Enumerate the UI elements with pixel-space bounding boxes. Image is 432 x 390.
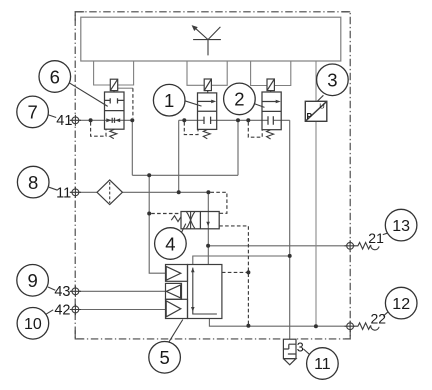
leader balloon 11 — [303, 349, 309, 354]
svg-text:U: U — [319, 102, 324, 111]
valve 4 body — [181, 212, 219, 229]
valve 1 solenoid — [204, 79, 211, 93]
valve 1 spring — [203, 129, 210, 138]
svg-text:43: 43 — [54, 284, 70, 300]
hose squiggle 22 — [356, 323, 379, 330]
pilot dash valve1 spring end — [184, 122, 198, 135]
balloon 12 — [385, 287, 417, 319]
balloon 1 — [153, 84, 185, 116]
svg-text:21: 21 — [368, 230, 384, 246]
wire port 43 — [71, 290, 166, 292]
svg-text:7: 7 — [27, 102, 37, 123]
wire valve5 top port — [193, 256, 290, 265]
wire valve 6 drop — [131, 120, 133, 175]
pilot dash valve6 spring end — [91, 122, 106, 136]
wire sensor down — [315, 121, 317, 326]
svg-text:8: 8 — [28, 172, 38, 193]
balloon 10 — [17, 308, 49, 340]
svg-text:9: 9 — [27, 270, 37, 291]
svg-text:12: 12 — [392, 296, 410, 313]
wire left riser x149 — [149, 175, 165, 273]
valve 5 main box — [188, 265, 222, 319]
valve 2 arrow head — [276, 100, 281, 104]
port connector 41 — [70, 115, 81, 126]
pilot dash to valve4 left — [151, 213, 181, 215]
svg-text:4: 4 — [165, 233, 175, 254]
balloon 11 — [307, 348, 339, 380]
port connector 21 — [345, 240, 356, 251]
svg-text:5: 5 — [159, 347, 169, 368]
svg-text:1: 1 — [164, 90, 174, 111]
port connector 22 — [345, 321, 356, 332]
wire valve2 down to test port — [289, 120, 291, 339]
valve 5 stroke arrow — [193, 268, 217, 314]
wire port 42 — [71, 309, 166, 311]
enclosure boundary (dash-dot) — [75, 12, 350, 339]
leader balloon 13 — [383, 233, 388, 234]
wire block to sensor U3 — [315, 62, 317, 102]
svg-text:42: 42 — [54, 302, 70, 318]
valve 4 restrictor — [186, 212, 194, 229]
svg-text:11: 11 — [56, 186, 71, 202]
valve 5 check box bottom — [166, 299, 188, 318]
wire cross link at y175 — [132, 174, 238, 176]
pilot dash valve4 to line22 — [219, 226, 248, 326]
balloon 9 — [17, 265, 49, 297]
svg-text:10: 10 — [24, 316, 42, 333]
balloon 2 — [224, 83, 256, 115]
leader balloon 12 — [383, 312, 388, 317]
leader balloon 5 — [168, 320, 182, 343]
svg-text:P: P — [307, 112, 313, 121]
hose squiggle 21 — [356, 242, 379, 249]
leader balloon 4 — [182, 224, 186, 233]
balloon 5 — [149, 342, 181, 374]
wire 41 port to valve 6 — [71, 119, 133, 121]
leader balloon 3 — [317, 95, 323, 101]
leader balloon 7 — [48, 115, 56, 118]
leader balloon 1 — [184, 101, 201, 106]
wire line 21 — [208, 245, 356, 247]
port connector 11 — [70, 187, 81, 198]
valve 6 spring — [110, 129, 117, 138]
filter F1 — [97, 180, 122, 205]
svg-text:3: 3 — [297, 340, 304, 354]
valve 2 spring — [267, 130, 274, 139]
port connector 42 — [70, 304, 81, 315]
svg-text:22: 22 — [371, 311, 387, 327]
pilot dash valve2 spring end — [248, 122, 262, 137]
balloon 8 — [17, 166, 49, 198]
wire riser x238 — [237, 120, 239, 175]
wire filter line — [71, 191, 209, 193]
balloon 7 — [17, 96, 49, 128]
valve 5 check box middle — [166, 283, 182, 299]
svg-text:3: 3 — [327, 70, 337, 91]
test port 3 — [282, 337, 297, 342]
leader balloon 6 — [68, 82, 108, 106]
tab to valve 6 — [94, 62, 134, 86]
tab to valve 2 — [251, 62, 291, 86]
valve 6 body — [105, 92, 125, 129]
valve 6 solenoid — [110, 79, 117, 92]
port connector 43 — [70, 286, 81, 297]
balloon 13 — [385, 209, 417, 241]
wire valve5 bottom to line 22 — [209, 319, 355, 327]
valve 5 check box top — [166, 265, 188, 282]
valve 1 arrow head — [211, 100, 216, 104]
svg-text:2: 2 — [234, 89, 244, 110]
wire main line valves 1-2 — [179, 119, 290, 121]
leader balloon 2 — [254, 104, 265, 108]
pilot dash valve5 right — [222, 271, 249, 273]
svg-text:41: 41 — [56, 113, 72, 129]
valve 6 check arrows — [106, 118, 120, 122]
flow symbol in block — [193, 26, 221, 55]
valve 1 body — [198, 93, 217, 129]
pressure sensor U3 — [305, 101, 327, 121]
svg-text:13: 13 — [392, 218, 410, 235]
svg-text:6: 6 — [50, 66, 60, 87]
leader balloon 8 — [49, 187, 58, 190]
valve 2 solenoid — [267, 79, 274, 92]
manifold block — [81, 17, 341, 61]
balloon 4 — [155, 228, 187, 260]
leader balloon 10 — [46, 310, 53, 315]
pilot dash valve6 solenoid — [118, 87, 133, 89]
balloon 6 — [39, 61, 71, 93]
leader balloon 9 — [48, 287, 55, 290]
valve 4 down arrow — [206, 222, 210, 226]
tab to valve 1 — [187, 62, 227, 86]
pilot dash filter line to valve4 right pilot — [210, 192, 227, 213]
balloon 3 — [317, 64, 349, 96]
wire filter to valve4 to valve5 — [207, 192, 209, 264]
wire valve1 riser — [178, 120, 180, 192]
svg-text:11: 11 — [314, 356, 331, 373]
valve 4 spring — [171, 216, 181, 222]
valve 2 body — [262, 92, 281, 130]
